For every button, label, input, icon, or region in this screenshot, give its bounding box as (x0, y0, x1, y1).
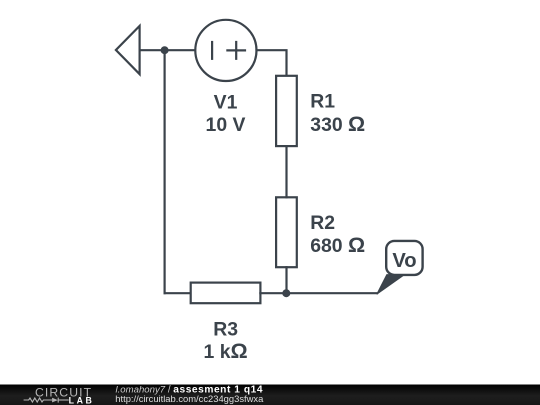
wire: ground to source (140, 49, 196, 51)
logo schematic squiggle (resistor + diode) (24, 398, 69, 403)
wire: R3 to Vo (260, 292, 377, 294)
svg-text:680 Ω: 680 Ω (310, 233, 365, 257)
wire: bottom left to R3 (165, 292, 191, 294)
logo diode triangle (52, 398, 58, 403)
net flag Vo tail (377, 275, 405, 295)
voltage source V1 body (195, 20, 256, 81)
svg-text:10 V: 10 V (206, 114, 246, 136)
wire: left branch vertical (164, 50, 166, 293)
footer bar (0, 385, 540, 405)
svg-text:LAB: LAB (69, 396, 95, 405)
wire: source to R1 (257, 50, 287, 76)
svg-text:Vo: Vo (392, 250, 416, 272)
svg-text:R2: R2 (310, 212, 335, 234)
V1 minus sign (211, 41, 213, 60)
svg-text:1 kΩ: 1 kΩ (204, 339, 248, 363)
wire: R1 to R2 (285, 146, 287, 197)
V1 plus sign (226, 41, 246, 60)
resistor R3 body (191, 283, 261, 304)
net flag Vo box (386, 241, 422, 275)
svg-text:330 Ω: 330 Ω (310, 112, 365, 136)
svg-text:http://circuitlab.com/cc234gg3: http://circuitlab.com/cc234gg3sfwxa (115, 393, 264, 404)
svg-text:R1: R1 (310, 90, 335, 112)
wire: R2 to bottom node (285, 267, 287, 293)
junction dot at output node (282, 289, 290, 297)
resistor R1 body (276, 76, 297, 146)
junction dot at ground/source node (161, 46, 169, 54)
svg-text:R3: R3 (213, 318, 238, 340)
resistor R2 body (276, 197, 297, 267)
ground (left-pointing triangle symbol) (116, 26, 140, 74)
svg-text:V1: V1 (214, 92, 238, 114)
